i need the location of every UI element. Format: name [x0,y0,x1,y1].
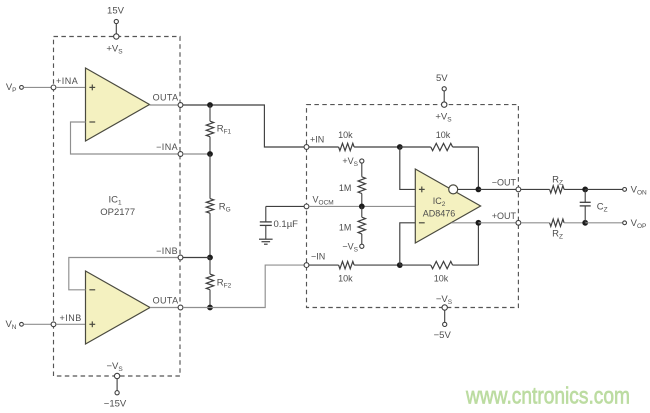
wire node B1 to op-amp - input [400,223,416,265]
wire -OUT node to pin [478,188,516,190]
label -OUT [492,178,517,188]
wire op-amp A inverting feedback [71,122,179,154]
-Vs pin IC2 [442,305,447,322]
svg-text:5V: 5V [436,73,448,84]
label IC1 [108,195,122,207]
node VOCM divider [359,204,365,210]
pin +IN [304,145,309,150]
terminal VON [623,188,627,192]
wire RZ2 to node [564,222,585,224]
15V supply terminal [114,19,118,33]
label 1M R5 [339,183,352,193]
label 10k R2 [436,130,451,140]
terminal VP [20,86,24,90]
svg-text:0.1µF: 0.1µF [274,219,299,230]
inverting output bubble [449,185,458,194]
node OUTA junction [207,102,213,108]
svg-text:OUTA: OUTA [153,93,179,103]
label +Vs divider [342,156,358,168]
wire capacitor to VOCM pin [266,205,304,207]
capacitor CZ [580,189,591,222]
wire OUTB to -IN [183,265,304,307]
wire -INB pin to node [183,257,210,259]
label VOP [631,218,647,230]
label RZ2 [552,229,563,241]
node -INB junction [207,255,213,261]
node B1 [397,262,403,268]
5V supply terminal [442,87,446,102]
wire -IN to R3 [309,264,339,266]
label VP [6,82,17,94]
-15V supply terminal [115,391,119,395]
node -OUT [476,187,482,193]
svg-text:www.cntronics.com: www.cntronics.com [465,383,630,409]
label VN [5,319,16,331]
op-amp IC2 AD8476 [415,169,480,243]
wire OUTA to +IN [183,105,304,147]
op-amp IC1-A [86,68,150,141]
wire op-amp B inverting feedback [69,258,178,290]
wire +IN to R1 [309,146,339,148]
label RG [219,202,231,214]
resistor R5 1M [358,163,365,206]
svg-text:+OUT: +OUT [492,211,517,221]
wire RZ1 to node [564,188,585,190]
svg-text:10k: 10k [338,130,353,140]
IC2 AD8476 dashed boundary box [307,105,519,308]
svg-text:+IN: +IN [310,135,324,145]
wire OUTB from op-amp B [150,307,178,309]
label -5V [434,330,452,341]
label RF2 [217,278,232,290]
svg-text:10k: 10k [338,274,353,284]
wire VP to +INA pin [23,86,51,88]
wire divider node to op-amp [362,205,416,207]
wire OUTA from op-amp A [150,104,179,106]
IC1 OP2177 dashed boundary box [54,37,181,377]
pin +INB [51,322,56,327]
label CZ [597,202,608,214]
resistor R6 1M [358,206,365,244]
svg-text:−INA: −INA [156,142,178,152]
wire +OUT node to pin [478,222,516,224]
label 0.1uF [274,219,299,230]
svg-text:−INB: −INB [156,246,178,256]
label 1M R6 [339,223,352,233]
label -Vs divider [342,242,358,254]
node -INA junction [207,151,213,157]
wire -OUT pin to RZ1 [521,188,550,190]
pin -OUT [516,187,521,192]
label RF1 [217,124,232,136]
wire +OUT pin to RZ2 [521,222,550,224]
wire R4 to +OUT node [477,223,479,265]
label -15V [104,399,127,410]
label +INB [60,313,82,323]
wire VOCM to divider node [309,205,362,207]
pin -Vs divider [360,244,364,248]
resistor R1 10k [339,143,355,150]
pin -IN [304,263,309,268]
resistor RZ1 [550,186,565,193]
resistor RF1 [206,105,213,154]
svg-text:−15V: −15V [104,399,127,410]
label VOCM [313,195,334,207]
pin +INA [51,85,56,90]
label AD8476 [423,209,456,219]
resistor RG [206,154,213,258]
label 10k R4 [434,274,449,284]
terminal VOP [623,221,627,225]
resistor RZ2 [550,219,565,226]
label RZ1 [552,175,563,187]
node VOP junction [582,220,588,226]
pin -INB [178,255,183,260]
wire +INA pin to op-amp A [56,86,86,88]
label -INA [156,142,178,152]
svg-text:+INB: +INB [60,313,82,323]
node A1 [397,144,403,150]
-5V supply terminal [443,322,447,326]
resistor R3 10k [339,261,355,268]
wire node to VON [585,188,623,190]
svg-text:+INA: +INA [56,76,78,86]
svg-text:OUTA: OUTA [153,296,179,306]
label OUTA [153,93,179,103]
terminal VN [20,322,24,326]
wire VN to +INB pin [23,323,51,325]
label +INA [56,76,78,86]
watermark www.cntronics.com [465,383,630,409]
resistor RF2 [206,258,213,308]
label -IN [311,252,325,262]
svg-text:1M: 1M [339,223,352,233]
wire +INB pin to op-amp B [56,323,86,325]
svg-text:AD8476: AD8476 [423,209,456,219]
label 5V [436,73,448,84]
-Vs pin IC1 [114,373,119,390]
label OUTB [153,296,179,306]
svg-text:15V: 15V [107,6,125,17]
wire node A1 to op-amp + input [400,147,416,189]
wire R3 to node B1 [354,264,400,266]
label VON [631,185,647,197]
label 10k R1 [338,130,353,140]
pin +Vs divider [360,159,364,163]
pin VOCM [304,204,309,209]
ground [259,239,273,244]
label +Vs IC2 [435,112,452,124]
svg-text:OP2177: OP2177 [100,207,135,218]
label 10k R3 [338,274,353,284]
node +OUT [476,220,482,226]
+Vs pin IC2 [442,102,447,107]
resistor R4 10k feedback [400,261,479,268]
node VON junction [582,187,588,193]
wire -INA pin to node [183,153,210,155]
wire -OUT [458,188,476,190]
label +OUT [492,211,517,221]
svg-text:−IN: −IN [311,252,325,262]
label -Vs IC1 [106,361,123,373]
wire +OUT [452,222,477,224]
node OUTB junction [207,305,213,311]
label 15V [107,6,125,17]
svg-text:10k: 10k [436,130,451,140]
svg-text:−5V: −5V [434,330,452,341]
wire R1 to node A1 [354,146,400,148]
label +IN [310,135,324,145]
label -INB [156,246,178,256]
svg-text:1M: 1M [339,183,352,193]
op-amp IC1-B [86,271,151,344]
+Vs pin IC1 [114,34,119,39]
label OP2177 [100,207,135,218]
wire R2 to -OUT node [477,147,479,189]
pin OUTB [178,305,183,310]
pin +OUT [516,220,521,225]
pin OUTA [178,103,183,108]
capacitor C1 0.1uF [260,206,272,239]
wire node to VOP [585,222,623,224]
label IC2 [433,196,446,208]
svg-text:−OUT: −OUT [492,178,517,188]
label -Vs IC2 [436,294,453,306]
pin -INA [178,152,183,157]
svg-text:10k: 10k [434,274,449,284]
label +Vs IC1 [106,44,123,56]
resistor R2 10k feedback [400,143,479,150]
